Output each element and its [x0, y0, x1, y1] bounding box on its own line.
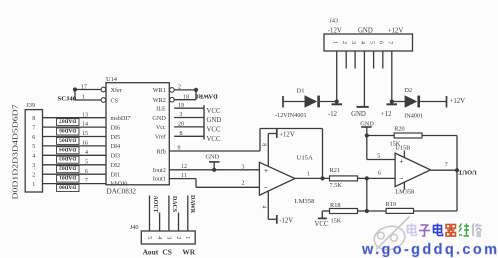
resistor R20: [390, 125, 423, 147]
svg-text:WR: WR: [182, 248, 195, 257]
pin number 4: [85, 150, 88, 156]
svg-text:DAD04: DAD04: [59, 146, 76, 152]
svg-text:5: 5: [85, 159, 88, 165]
wire J43 pin4 down: [363, 51, 365, 107]
svg-text:+12V: +12V: [450, 98, 466, 105]
svg-text:6: 6: [32, 135, 35, 141]
svg-text:R18: R18: [330, 202, 341, 209]
connector J40: [130, 224, 196, 244]
svg-text:-12V: -12V: [328, 27, 342, 34]
U15B - input mark: [399, 174, 403, 183]
power net labels VCC GND VCC VCC: [207, 108, 222, 143]
net label DAD07 (inverted): [57, 118, 80, 126]
svg-text:Vcc: Vcc: [156, 124, 166, 131]
label U15B: [395, 145, 410, 152]
pin number 2: [242, 181, 245, 187]
wire D1 cathode to node: [320, 101, 337, 103]
op-amp U15A triangle: [259, 162, 295, 195]
wire U15A output: [295, 177, 330, 179]
power +12V: [268, 129, 295, 138]
svg-text:VCC: VCC: [207, 136, 221, 143]
svg-text:IN4001: IN4001: [404, 113, 423, 120]
svg-text:LM358: LM358: [294, 198, 315, 205]
connector J39: [25, 102, 42, 192]
svg-text:DI3: DI3: [111, 153, 121, 160]
svg-text:DI2: DI2: [111, 162, 121, 169]
connector J39 pin numbers 8-1: [32, 116, 35, 188]
svg-text:DACS: DACS: [171, 196, 177, 213]
svg-text:7: 7: [85, 178, 88, 184]
svg-text:UOUT: UOUT: [458, 168, 477, 175]
svg-text:16: 16: [82, 141, 88, 147]
wire V- stub: [267, 191, 269, 219]
svg-text:msbDI7: msbDI7: [111, 115, 131, 122]
svg-text:J43: J43: [329, 17, 338, 24]
svg-text:1: 1: [332, 41, 338, 44]
pin 18 WR2 bubble: [170, 97, 175, 102]
U15B top stub: [403, 151, 405, 158]
wire pin5 route: [367, 136, 396, 160]
svg-text:17: 17: [81, 84, 87, 90]
net label DAD01 (inverted): [57, 174, 80, 182]
pin 17 Xfer bubble: [101, 87, 106, 92]
wire J39 pin 8 to DAC: [43, 117, 107, 119]
pin number 18: [183, 94, 189, 100]
pin number 7: [85, 178, 88, 184]
pin numbers 19 3 20 8: [178, 103, 184, 137]
svg-text:15K: 15K: [331, 217, 342, 224]
pin number 9: [178, 146, 181, 152]
svg-text:lsbDI0: lsbDI0: [111, 181, 128, 188]
label CS: [162, 248, 171, 257]
wire J40 pin4 stub: [159, 213, 161, 232]
ground symbol: [351, 107, 369, 118]
svg-text:5: 5: [32, 144, 35, 150]
wire feedback up: [259, 129, 261, 152]
wire feedback down: [322, 129, 324, 179]
svg-text:15: 15: [82, 131, 88, 137]
pin 1 CS bubble: [101, 98, 106, 103]
svg-text:7: 7: [387, 41, 393, 44]
svg-text:Vref: Vref: [155, 134, 167, 141]
label LM358: [294, 198, 315, 205]
power -12V bar: [282, 96, 284, 108]
svg-text:7: 7: [445, 163, 448, 169]
svg-text:14: 14: [82, 122, 88, 128]
wire J43 pin6 stub: [382, 51, 384, 69]
resistor R19: [386, 201, 414, 213]
net label DAD00 (inverted): [57, 184, 80, 192]
svg-text:5: 5: [146, 236, 152, 239]
svg-text:U14: U14: [106, 76, 118, 83]
svg-text:Iout1: Iout1: [153, 176, 166, 183]
svg-text:20: 20: [178, 122, 184, 128]
svg-text:VCC: VCC: [315, 221, 329, 228]
junction: [390, 99, 394, 103]
svg-text:3: 3: [350, 41, 356, 44]
svg-text:3: 3: [32, 163, 35, 169]
wire J43 pin7 down: [391, 51, 393, 102]
svg-text:6: 6: [378, 41, 384, 44]
junction: [365, 176, 369, 180]
svg-text:DI6: DI6: [111, 124, 121, 131]
resistor R21: [330, 167, 358, 189]
svg-text:Aout: Aout: [143, 248, 159, 257]
svg-text:+: +: [264, 166, 268, 175]
svg-text:DAD06: DAD06: [59, 127, 76, 133]
svg-text:VCC: VCC: [207, 127, 221, 134]
svg-text:6: 6: [378, 171, 381, 177]
wire J43 pin5 stub: [373, 51, 375, 69]
svg-text:DAD05: DAD05: [59, 136, 76, 142]
wire Iout1: [169, 178, 196, 180]
svg-text:WR1: WR1: [153, 87, 166, 94]
svg-text:R20: R20: [394, 125, 405, 132]
net label DAWR vertical: [189, 195, 195, 214]
U14 left pin names: [111, 87, 131, 188]
svg-text:CS: CS: [111, 97, 119, 104]
svg-text:8: 8: [32, 116, 35, 122]
svg-text:13: 13: [82, 112, 88, 118]
pin number 11: [181, 173, 187, 179]
svg-text:+12: +12: [381, 111, 392, 118]
net label DAD06 (inverted): [57, 127, 80, 135]
svg-text:DAD02: DAD02: [59, 165, 76, 171]
svg-text:7.5K: 7.5K: [330, 182, 343, 189]
wire J39 pin 2 to DAC: [43, 173, 107, 175]
wire R21 to pin6: [358, 177, 396, 179]
svg-text:-12: -12: [328, 111, 338, 118]
net label DAWR0 (inverted): [195, 92, 217, 99]
diode D1: [297, 88, 320, 108]
svg-text:4: 4: [359, 41, 365, 44]
svg-text:D2: D2: [404, 87, 412, 94]
svg-text:-12VIN4001: -12VIN4001: [275, 112, 307, 119]
svg-text:5: 5: [368, 41, 374, 44]
pin number 5: [85, 159, 88, 165]
svg-text:-12V: -12V: [279, 217, 293, 224]
J40 pin numbers 5-1 rotated: [146, 236, 190, 239]
svg-text:DAD07: DAD07: [59, 118, 76, 124]
net +12 tick: [381, 102, 397, 119]
svg-text:3: 3: [180, 112, 183, 118]
resistor R18: [330, 202, 358, 224]
svg-text:3: 3: [165, 236, 171, 239]
svg-text:DI4: DI4: [111, 143, 121, 150]
wire U15B output: [431, 169, 458, 171]
wire R20 left: [367, 135, 394, 137]
pin number 6: [378, 171, 381, 177]
svg-text:6: 6: [85, 169, 88, 175]
svg-text:DAD00: DAD00: [59, 184, 76, 190]
wire vertical join: [74, 90, 76, 101]
svg-text:2: 2: [341, 41, 347, 44]
pin number 14: [82, 122, 88, 128]
svg-text:Xfer: Xfer: [111, 87, 122, 94]
wire R19 right: [414, 210, 458, 212]
svg-text:4: 4: [261, 205, 267, 208]
net label DAD04 (inverted): [57, 146, 80, 154]
net -12 tick: [328, 102, 342, 119]
pin number 6: [85, 169, 88, 175]
wire R18 left: [322, 211, 329, 218]
svg-text:VCC: VCC: [207, 108, 221, 115]
junction: [455, 168, 459, 172]
power +12V: [447, 96, 466, 108]
pin number 12: [181, 164, 187, 170]
wire J40 pin3 up: [168, 196, 170, 232]
wire step down: [195, 179, 197, 188]
svg-text:DAD01: DAD01: [59, 174, 76, 180]
wire WR2 pin 18: [174, 99, 196, 101]
svg-text:4: 4: [156, 236, 162, 239]
wire pin to VCC rail: [174, 126, 204, 128]
svg-text:D1: D1: [297, 88, 305, 95]
ground symbol: [206, 154, 220, 170]
svg-text:8: 8: [260, 143, 266, 146]
svg-text:DI1: DI1: [111, 172, 121, 179]
U15B bottom stub: [403, 182, 405, 189]
wire to D1 anode: [283, 101, 305, 103]
svg-text:D0D1D2D3D4D5D6D7: D0D1D2D3D4D5D6D7: [13, 104, 20, 200]
net label SCJ40 (inverted): [58, 95, 77, 102]
pin number 3: [242, 164, 245, 170]
pin number 15: [82, 131, 88, 137]
svg-text:2: 2: [32, 173, 35, 179]
pin number 7: [445, 163, 448, 169]
diode D2: [404, 87, 420, 108]
svg-text:+12V: +12V: [279, 131, 295, 138]
junction: [335, 99, 339, 103]
svg-text:AOUT: AOUT: [152, 195, 158, 212]
pin 2 WR1 bubble: [170, 88, 175, 93]
svg-text:4: 4: [32, 154, 35, 160]
label +12V: [388, 27, 404, 34]
wire to op-amp -: [196, 186, 260, 188]
pin number 8 rotated: [260, 143, 266, 146]
svg-text:GND: GND: [152, 115, 166, 122]
wire Iout2 to op-amp +: [169, 169, 259, 171]
svg-text:1: 1: [184, 236, 190, 239]
wire Rfb: [169, 150, 260, 152]
wire D2 cathode: [420, 101, 447, 103]
wire J40 pin1 up: [187, 196, 189, 232]
svg-text:−: −: [264, 183, 268, 192]
svg-text:2: 2: [242, 181, 245, 187]
svg-text:Rfb: Rfb: [157, 148, 166, 155]
wire J43 pin3 stub: [354, 51, 356, 69]
net label UOUT (inverted): [458, 168, 477, 175]
svg-text:GND: GND: [351, 111, 366, 118]
wire R18 right: [358, 210, 367, 212]
svg-text:U15A: U15A: [297, 155, 314, 162]
svg-text:CS: CS: [162, 248, 171, 257]
wire node down: [366, 178, 368, 211]
svg-text:GND: GND: [358, 27, 373, 34]
svg-text:2: 2: [175, 236, 181, 239]
svg-text:DAWR0: DAWR0: [195, 92, 217, 99]
svg-text:+12V: +12V: [388, 27, 404, 34]
junction: [212, 168, 216, 172]
svg-text:U15B: U15B: [395, 145, 410, 152]
junction: [365, 209, 369, 213]
svg-text:5: 5: [377, 154, 380, 160]
connector J43: [324, 17, 413, 51]
svg-text:3: 3: [242, 164, 245, 170]
wire J39 pin 3 to DAC: [43, 164, 107, 166]
label -12V: [328, 27, 342, 34]
junction: [73, 87, 77, 91]
label Aout: [143, 248, 159, 257]
wire V+ stub: [267, 134, 269, 167]
svg-text:2: 2: [178, 85, 181, 91]
svg-text:DI5: DI5: [111, 134, 121, 141]
svg-text:WR2: WR2: [153, 97, 166, 104]
junction: [320, 176, 324, 180]
label -12V IN4001: [275, 112, 307, 119]
U15B + input mark: [399, 156, 403, 165]
watermark logo: [372, 217, 410, 253]
watermark url: [361, 242, 497, 258]
label U15A: [297, 155, 314, 162]
label LM358: [395, 188, 414, 195]
svg-text:1: 1: [82, 95, 85, 101]
wire feedback top: [260, 128, 323, 130]
wire CS pin 1: [75, 99, 101, 101]
power rail tick: [203, 105, 205, 139]
pin number 5: [377, 154, 380, 160]
svg-text:R19: R19: [386, 201, 397, 208]
label WR: [182, 248, 195, 257]
net label DACS vertical: [171, 196, 177, 213]
svg-text:DAD03: DAD03: [59, 155, 76, 161]
svg-text:Iout2: Iout2: [153, 167, 166, 174]
svg-text:−: −: [399, 174, 403, 183]
wire J40 pin2 stub: [178, 213, 180, 232]
svg-text:7: 7: [32, 125, 35, 131]
wire to D2 anode: [392, 101, 405, 103]
pin number 1: [307, 171, 310, 177]
svg-text:R21: R21: [330, 167, 341, 174]
wire feedback right up: [456, 170, 458, 211]
label IN4001: [404, 113, 423, 120]
pin number 16: [82, 141, 88, 147]
wire J39 pin 7 to DAC: [43, 126, 107, 128]
op-amp U15B triangle: [395, 153, 430, 187]
wire J39 pin 6 to DAC: [43, 136, 107, 138]
port name D0-D7 bus: [13, 104, 20, 200]
wire J43 pin1 down: [336, 51, 338, 102]
svg-text:8: 8: [180, 131, 183, 137]
wire pin to GND rail: [174, 117, 204, 119]
net label DAD02 (inverted): [57, 165, 80, 173]
svg-text:w.go-gddq.com: w.go-gddq.com: [361, 242, 497, 258]
svg-text:+: +: [399, 156, 403, 165]
wire vertical join: [195, 90, 197, 100]
svg-text:DAWR: DAWR: [189, 195, 195, 214]
svg-text:1: 1: [32, 182, 35, 188]
ground symbol: [360, 120, 374, 135]
svg-text:J40: J40: [130, 224, 139, 231]
svg-text:ILE: ILE: [156, 106, 166, 113]
svg-text:19: 19: [178, 103, 184, 109]
svg-text:J39: J39: [26, 102, 35, 109]
svg-text:GND: GND: [206, 154, 220, 161]
svg-text:18: 18: [183, 94, 189, 100]
wire J39 pin 5 to DAC: [43, 145, 107, 147]
wire WR1 pin 2: [174, 89, 196, 91]
U15A - input mark: [264, 183, 268, 192]
wire J39 pin 1 to DAC: [43, 183, 107, 185]
svg-text:SCJ40: SCJ40: [58, 95, 77, 102]
svg-text:4: 4: [85, 150, 88, 156]
svg-text:1: 1: [307, 171, 310, 177]
U15A + input mark: [264, 166, 268, 175]
wire pin to VCC rail: [174, 107, 204, 109]
pin number 4 rotated: [261, 205, 267, 208]
net label AOUT vertical: [152, 195, 158, 212]
wire J40 pin5 up: [149, 196, 151, 232]
pin number 1: [82, 95, 85, 101]
wire R19 left: [367, 210, 386, 212]
pin number 17: [81, 84, 87, 90]
junction: [365, 133, 369, 137]
power VCC: [315, 218, 329, 228]
pin number 2: [178, 85, 181, 91]
svg-text:DAC0832: DAC0832: [107, 188, 137, 196]
wire J43 pin2 stub: [345, 51, 347, 69]
J43 pin numbers 1-7 rotated: [332, 41, 393, 44]
wire pin to VCC rail: [174, 135, 204, 137]
svg-text:GND: GND: [207, 117, 222, 124]
wire J39 pin 4 to DAC: [43, 154, 107, 156]
junction: [194, 88, 198, 92]
wire Xfer pin 17: [75, 89, 101, 91]
power -12V: [268, 215, 293, 224]
wire R20 right: [422, 136, 457, 171]
U14 right pin names: [152, 87, 166, 182]
net label DAD05 (inverted): [57, 136, 80, 144]
pin number 13: [82, 112, 88, 118]
watermark text caption: [408, 224, 482, 237]
IC U14 DAC0832 body: [106, 76, 169, 196]
label GND: [358, 27, 373, 34]
net label DAD03 (inverted): [57, 155, 80, 163]
